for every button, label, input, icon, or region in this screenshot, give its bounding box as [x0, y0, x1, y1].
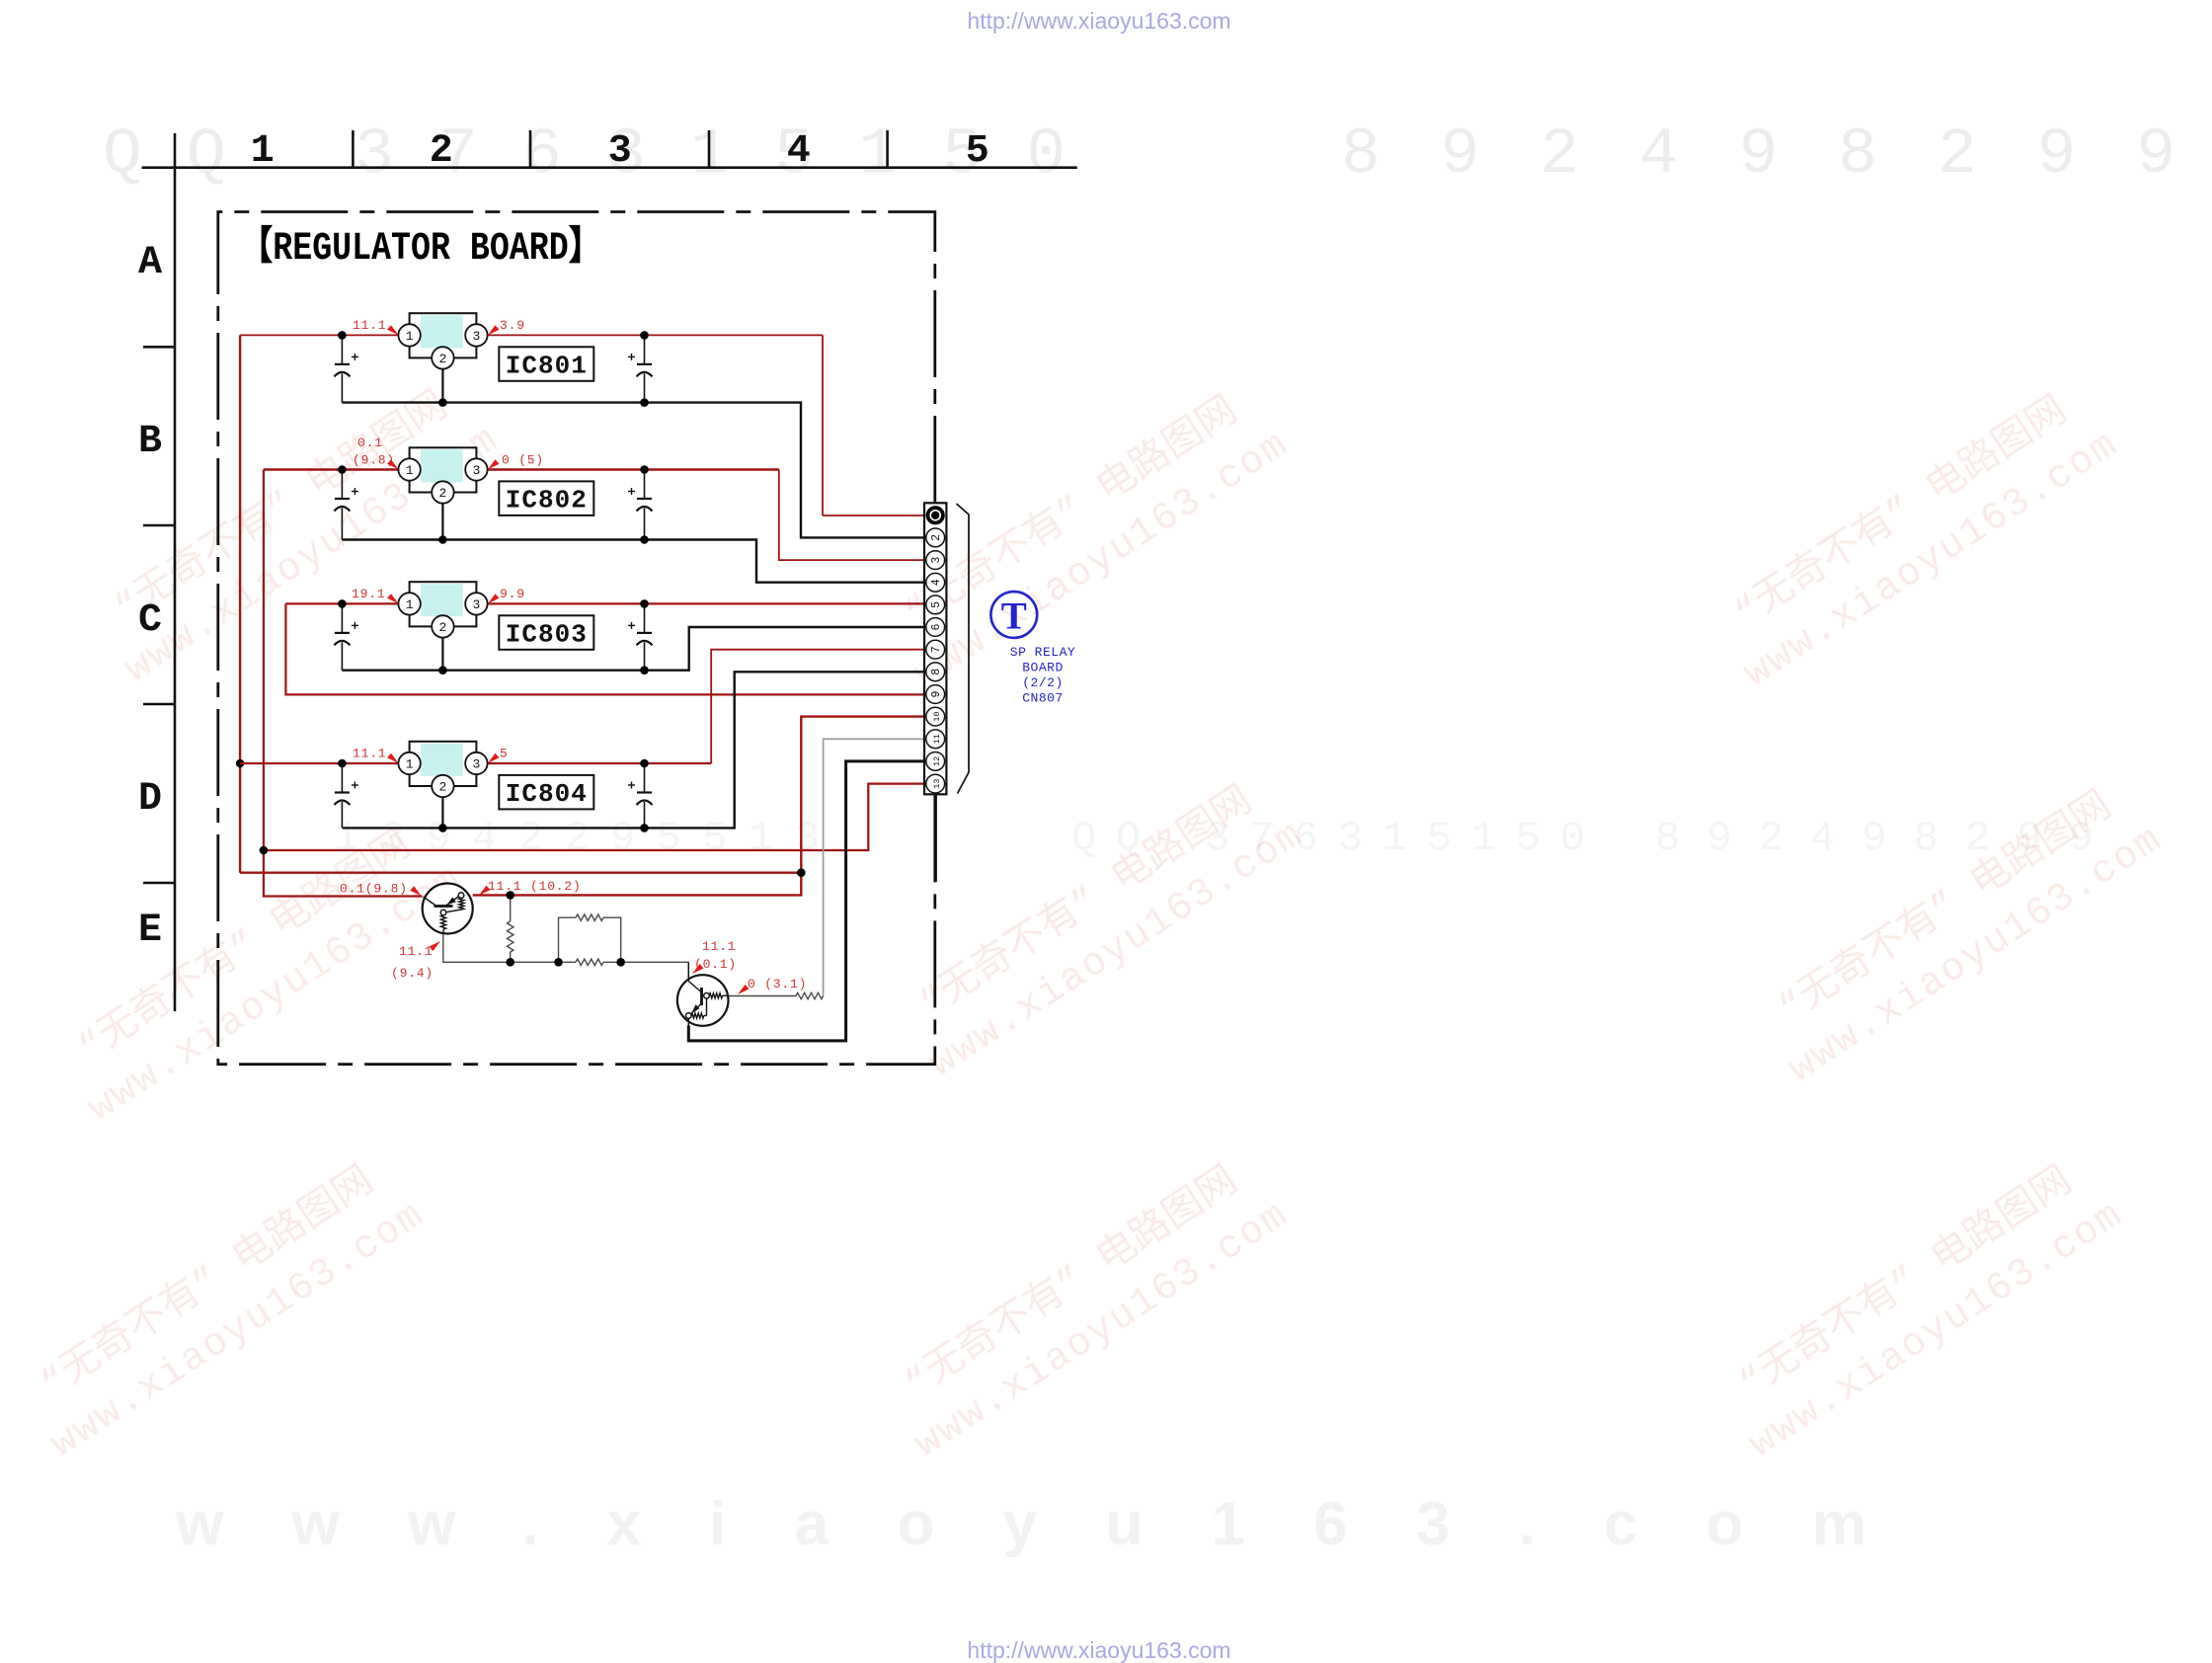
svg-text:11.1: 11.1: [353, 747, 386, 761]
wire IC804 output to CN807 pin7: [711, 650, 924, 763]
label 0.1(9.8) at Q1 base: [340, 882, 422, 897]
junction IC802 pin2 ground: [438, 535, 447, 544]
junction IC803 output cap top: [640, 599, 649, 608]
wire Q2 emitter output and resistor 0(3.1): [728, 992, 823, 998]
label 5 at IC804 pin3: [488, 747, 509, 763]
junction Q1 emitter / resistor: [506, 891, 514, 900]
label 11.1 (10.2) at Q1 emitter: [479, 879, 582, 896]
svg-text:3.9: 3.9: [500, 318, 525, 333]
wire IC803 input drop to CN807 pin9: [285, 603, 924, 694]
capacitor IC801 output: [628, 335, 653, 402]
svg-text:QQ 376315150: QQ 376315150: [103, 118, 1066, 192]
junction IC803 input cap top: [338, 599, 347, 608]
wire Q2 output to CN807 pin11 (gray): [824, 739, 924, 995]
junction IC804 output cap ground: [640, 824, 649, 832]
svg-text:IC804: IC804: [506, 779, 588, 809]
wire Q2 collector to CN807 pin12: [688, 761, 924, 1041]
wire IC803 ground to CN807 pin6: [342, 627, 924, 671]
board outline dash-dot border: [218, 212, 935, 1065]
resistor pair parallel loop: [559, 914, 621, 966]
svg-text:4: 4: [787, 129, 811, 174]
watermark pink diagonal tiles: [12, 369, 2172, 1467]
svg-text:(2/2): (2/2): [1022, 675, 1064, 690]
connector bracket: [957, 504, 970, 794]
junction IC804 input cap top: [338, 759, 347, 768]
junction loop right: [616, 958, 625, 967]
svg-text:11.1: 11.1: [399, 944, 433, 959]
junction IC804 pin2 ground: [438, 824, 447, 832]
svg-text:10: 10: [932, 711, 942, 721]
junction line A / IC804 input: [236, 759, 245, 768]
svg-text:8: 8: [930, 669, 943, 675]
svg-text:2: 2: [438, 486, 446, 501]
label 0 (3.1) at Q2 output: [738, 977, 807, 994]
svg-text:http://www.xiaoyu163.com: http://www.xiaoyu163.com: [967, 8, 1230, 34]
IC803 pin 3: [465, 593, 487, 614]
svg-text:1: 1: [406, 463, 414, 478]
capacitor IC802 input: [334, 470, 358, 540]
svg-text:3: 3: [472, 329, 480, 344]
svg-text:1: 1: [406, 757, 414, 772]
svg-text:SP RELAY: SP RELAY: [1010, 645, 1075, 660]
svg-text:1: 1: [406, 329, 414, 344]
wire 11.1 IC804 input line: [240, 762, 711, 764]
svg-text:T: T: [1001, 595, 1027, 638]
svg-text:5: 5: [500, 747, 509, 761]
svg-text:http://www.xiaoyu163.com: http://www.xiaoyu163.com: [967, 1637, 1230, 1663]
wire stub below connector: [934, 794, 937, 882]
svg-text:2: 2: [438, 620, 446, 635]
svg-text:(9.4): (9.4): [391, 966, 434, 981]
junction IC801 output cap ground: [640, 398, 649, 407]
wire 0.1(9.8) branch to CN807 pin13: [264, 784, 924, 850]
svg-text:IC803: IC803: [506, 619, 588, 649]
svg-text:5: 5: [930, 601, 943, 608]
label IC804: [499, 775, 593, 810]
svg-text:CN807: CN807: [1022, 691, 1064, 706]
svg-text:13: 13: [932, 778, 942, 788]
svg-text:3: 3: [472, 757, 480, 772]
watermark bottom url: [967, 1637, 1230, 1663]
symbol T to SP RELAY BOARD: [990, 592, 1037, 638]
svg-text:B: B: [138, 420, 162, 464]
svg-text:11.1: 11.1: [353, 318, 386, 333]
wire IC802 ground to CN807 pin4: [342, 540, 924, 583]
transistor Q2: [677, 963, 729, 1026]
svg-text:www.xiaoyu163.com: www.xiaoyu163.com: [175, 1490, 1866, 1558]
regulator IC803 body: [410, 582, 477, 626]
junction 11.1 rail / pin10 drop: [797, 868, 806, 877]
column ruler line and ticks: [142, 130, 1077, 168]
svg-text:【REGULATOR BOARD】: 【REGULATOR BOARD】: [240, 224, 601, 272]
IC803 pin 2: [432, 615, 453, 637]
junction IC802 output cap top: [640, 465, 649, 474]
wire IC804 pin2 to ground: [441, 797, 443, 828]
capacitor IC804 output: [628, 763, 653, 828]
wire Q1 base-resistor node chain: [443, 934, 689, 981]
watermark large bottom text: [175, 1490, 1866, 1558]
label 9.9 at IC803 pin3: [488, 587, 525, 603]
connector CN807: [924, 503, 946, 794]
svg-text:(9.8): (9.8): [353, 453, 395, 468]
svg-text:7: 7: [930, 646, 943, 653]
regulator IC804 body: [410, 742, 477, 786]
svg-text:9.9: 9.9: [500, 587, 525, 601]
svg-text:0 (5): 0 (5): [502, 453, 544, 468]
IC802 pin 2: [432, 481, 453, 503]
svg-text:2: 2: [438, 352, 446, 366]
label 11.1 at IC804 pin1: [353, 747, 399, 763]
wire IC801 pin2 to ground: [441, 368, 443, 402]
junction IC803 pin2 ground: [438, 666, 447, 674]
row labels A B C D E: [138, 241, 162, 953]
label 3.9 at IC801 pin3: [488, 318, 525, 335]
IC801 pin 2: [432, 347, 453, 368]
IC804 pin 1: [398, 752, 420, 774]
svg-text:2: 2: [430, 129, 453, 174]
label 0.1 (9.8) at IC802 pin1: [353, 436, 399, 469]
watermark faint digits top row: [103, 118, 2175, 192]
svg-text:2: 2: [930, 534, 943, 541]
wire IC804 ground to CN807 pin8: [343, 672, 924, 828]
label IC801: [499, 347, 593, 381]
IC802 pin 1: [398, 458, 420, 480]
svg-text:3: 3: [472, 463, 480, 478]
junction line B / pin13 branch: [260, 846, 269, 855]
transistor Q1: [423, 884, 473, 934]
wire 11.1 rail vertical (line A): [239, 335, 241, 872]
label SP RELAY BOARD (2/2) CN807: [1010, 645, 1075, 706]
svg-text:6: 6: [930, 623, 943, 630]
label 19.1 at IC803 pin1: [352, 587, 399, 603]
title REGULATOR BOARD: [240, 224, 601, 272]
wire CN807 pin10 to Q1 emitter: [473, 717, 924, 896]
junction loop left: [554, 958, 563, 967]
regulator IC801 body: [410, 313, 477, 357]
watermark faint digits middle row: [334, 815, 2093, 862]
wire 11.1 rail bottom horizontal: [240, 872, 801, 874]
junction IC803 output cap ground: [640, 666, 649, 674]
wire 11.1 rail: IC801 input line: [240, 335, 924, 515]
svg-text:12: 12: [932, 756, 942, 766]
junction IC804 output cap top: [640, 759, 649, 768]
svg-text:0.1: 0.1: [357, 436, 383, 450]
svg-text:3: 3: [472, 597, 480, 612]
junction IC802 input cap top: [338, 465, 347, 474]
svg-text:A: A: [138, 241, 162, 285]
svg-text:0.1(9.8): 0.1(9.8): [340, 882, 408, 897]
regulator IC802 body: [410, 447, 477, 492]
svg-text:11.1: 11.1: [702, 939, 736, 954]
wire 0.1(9.8) net: IC802 input line: [264, 468, 779, 470]
capacitor IC802 output: [628, 470, 653, 540]
label 0 (5) at IC802 pin3: [488, 453, 544, 470]
svg-text:19.1: 19.1: [352, 587, 385, 601]
svg-text:E: E: [138, 909, 162, 953]
label IC803: [499, 615, 593, 650]
capacitor IC801 input: [334, 335, 358, 402]
label 11.1 (9.4) at Q1 collector: [391, 941, 440, 981]
junction IC801 pin2 ground: [438, 398, 447, 407]
capacitor IC804 input: [334, 763, 358, 828]
wire IC802 output to CN807 pin3: [779, 470, 924, 561]
label 11.1 (0.1) at Q2 base: [692, 939, 737, 974]
label 11.1 at IC801 pin1: [353, 318, 399, 335]
svg-text:5: 5: [966, 129, 989, 174]
svg-text:1: 1: [251, 129, 275, 174]
svg-text:BOARD: BOARD: [1022, 661, 1064, 675]
junction IC802 output cap ground: [640, 535, 649, 544]
svg-text:D: D: [138, 777, 162, 822]
svg-text:9: 9: [930, 690, 943, 697]
svg-text:C: C: [138, 598, 162, 643]
svg-text:4: 4: [930, 579, 943, 586]
svg-text:3: 3: [930, 557, 943, 564]
svg-text:892498299: 892498299: [1341, 118, 2175, 192]
svg-text:IC801: IC801: [506, 351, 588, 380]
row ruler line and ticks: [143, 133, 175, 1011]
junction IC801 output cap top: [640, 331, 649, 340]
junction chain / resistor bottom: [506, 958, 514, 967]
svg-text:11: 11: [932, 734, 942, 744]
watermark top url: [967, 8, 1230, 34]
svg-text:1: 1: [406, 597, 414, 612]
svg-text:IC802: IC802: [506, 485, 588, 515]
IC804 pin 2: [432, 775, 453, 797]
svg-text:11.1 (10.2): 11.1 (10.2): [488, 879, 582, 894]
capacitor IC803 output: [628, 603, 653, 670]
wire IC801 ground to CN807 pin2: [342, 403, 924, 538]
label IC802: [499, 481, 593, 515]
IC803 pin 1: [398, 593, 420, 614]
IC801 pin 1: [398, 324, 420, 346]
column labels 1 2 3 4 5: [251, 129, 989, 174]
wire 19.1 net: IC803 input line to CN807 pin5: [285, 602, 924, 604]
wire IC802 pin2 to ground: [441, 504, 443, 540]
wire line B vertical 0.1(9.8): [264, 470, 423, 897]
svg-text:3: 3: [608, 129, 632, 174]
IC804 pin 3: [465, 752, 487, 774]
junction IC801 input cap top: [338, 331, 347, 340]
wire IC803 pin2 to ground: [441, 637, 443, 670]
resistor R vertical at Q1 emitter: [508, 895, 513, 962]
capacitor IC803 input: [334, 603, 358, 670]
IC801 pin 3: [465, 324, 487, 346]
svg-text:2: 2: [438, 780, 446, 795]
IC802 pin 3: [465, 458, 487, 480]
svg-text:0 (3.1): 0 (3.1): [748, 977, 807, 991]
